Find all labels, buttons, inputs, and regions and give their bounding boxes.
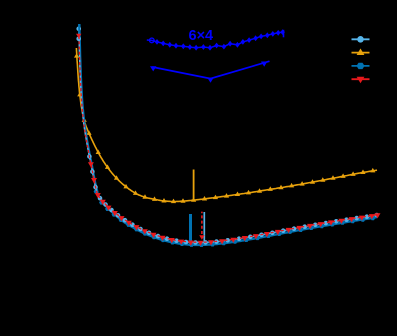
orange triangle markers <box>77 92 375 203</box>
teal apex overlay line <box>78 24 80 34</box>
blue tall end marker <box>283 30 285 38</box>
legend entry skyblue <box>352 36 370 43</box>
blue diamond markers <box>155 29 285 50</box>
blue open circle start marker <box>150 38 155 43</box>
red spike bottom triangle <box>199 235 204 240</box>
skyblue curve line <box>79 31 377 242</box>
legend entry red <box>352 77 370 84</box>
blue V line <box>152 61 269 78</box>
skyblue circle markers <box>76 27 379 245</box>
red dashed spike <box>201 212 203 234</box>
skyblue spike <box>203 212 205 242</box>
red dashed curve line <box>79 36 377 242</box>
orange first marker <box>74 53 79 58</box>
svg-text:6×4: 6×4 <box>189 28 214 44</box>
teal spike <box>189 214 192 246</box>
skyblue extra circle top <box>76 37 81 42</box>
red extra triangle top <box>76 34 81 39</box>
blue diamond curve line <box>147 32 283 48</box>
legend entry orange <box>352 49 370 56</box>
teal hexagon markers <box>94 189 376 247</box>
teal curve line <box>79 24 377 245</box>
orange curve line <box>76 48 377 202</box>
red triangle-down markers <box>88 162 381 246</box>
orange spike <box>193 170 195 201</box>
legend entry teal <box>352 63 370 69</box>
blue V triangle markers <box>150 66 156 71</box>
